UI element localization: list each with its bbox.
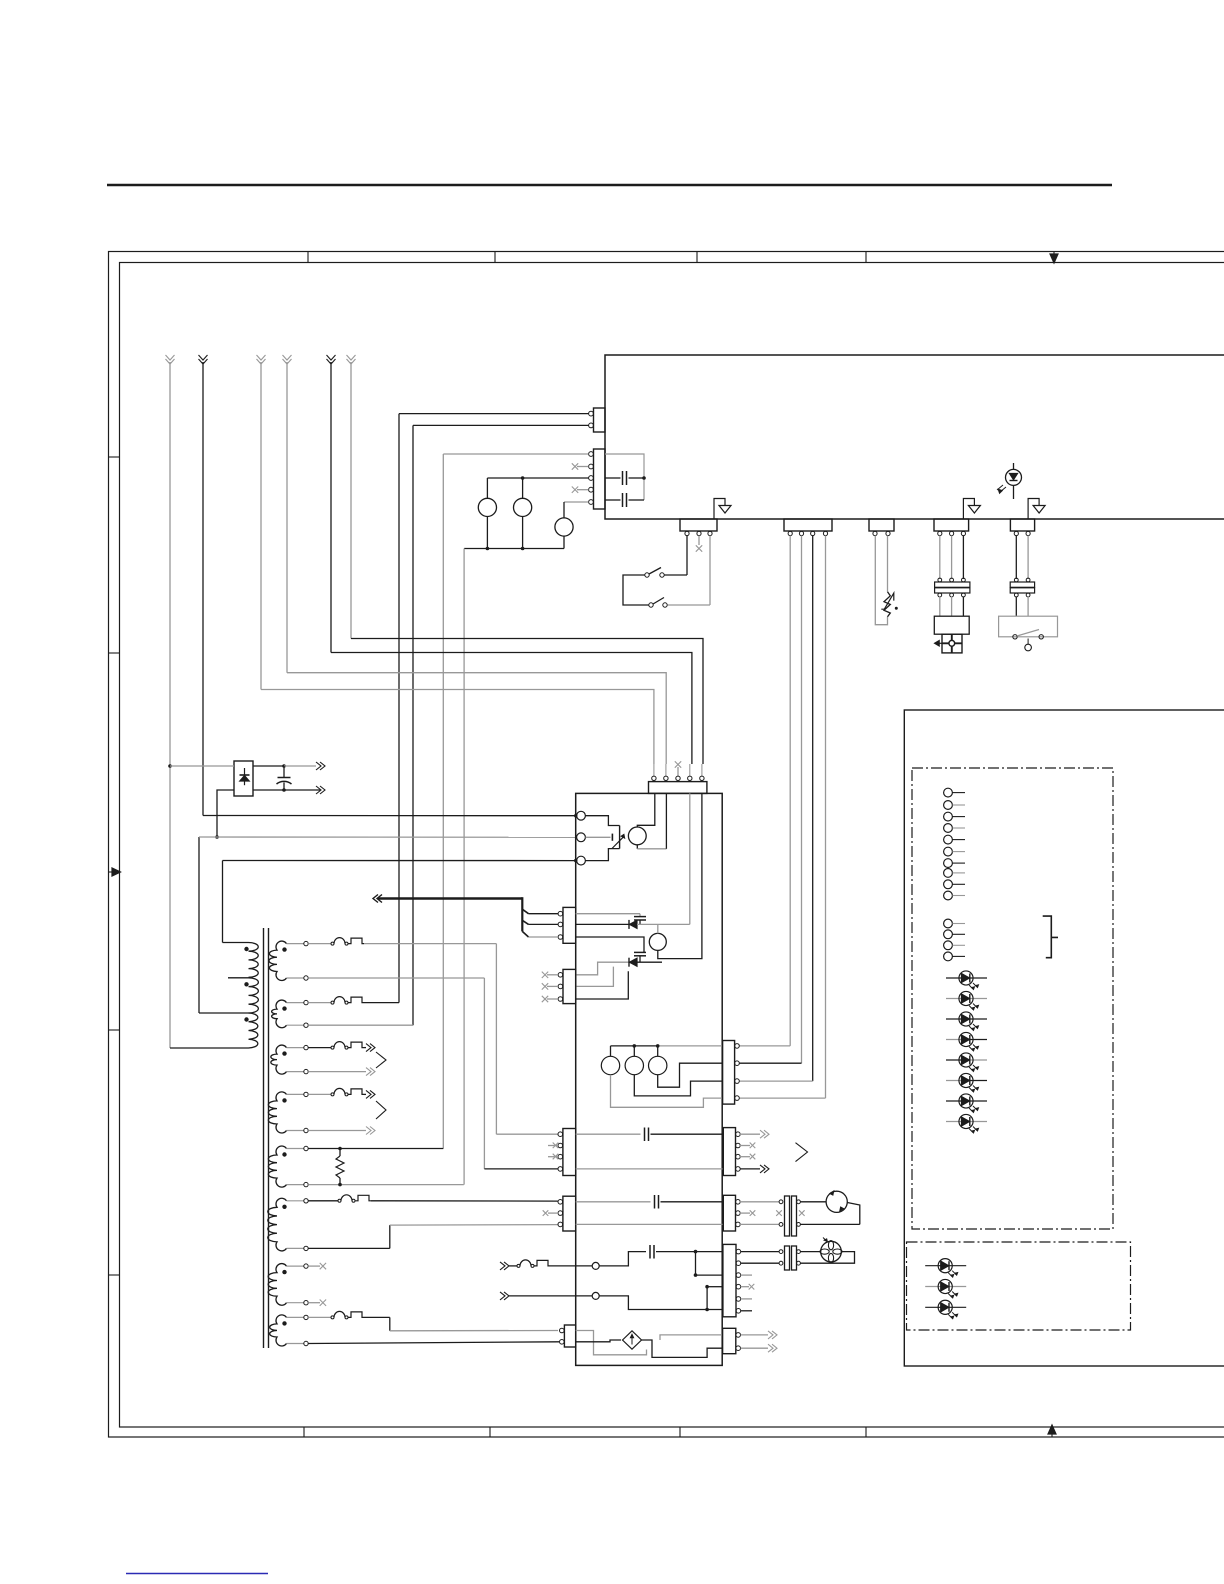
wire main board pin line y860 [223,860,577,862]
LED board dash-dot box [907,1242,1131,1330]
hyperlink underline [126,1573,268,1575]
connector CN-E1 right [723,1041,735,1105]
wire W4 to PSU pin2 [287,673,666,764]
LED D5 [946,1039,966,1041]
opto triac TR1 [586,816,620,826]
wire AC input 2 [217,790,234,837]
ground GND1 [714,499,725,520]
capacitor C5 [576,937,644,952]
nc stub CN-G pin1 [547,974,558,976]
nc stub CN-K pin3 [740,1156,750,1158]
wire W6 off-page feed [347,355,356,364]
nc stub CN-G pin3 [547,998,558,1000]
wire W2 off-page feed [199,355,208,364]
off-page arrow CN-Q pin1 [741,1334,768,1336]
wire D pin3 [576,971,629,999]
connector CN-G left [563,969,576,1003]
LED D11 [925,1286,945,1288]
wire S3 bottom [308,1071,366,1073]
connector CN-B on main board [594,449,606,509]
nc stub CN-H pin5 [741,1298,752,1300]
power supply board block [576,793,723,1365]
wire CN-D pin2 to CN-E1 [801,536,803,1064]
relay coil RL3 [555,518,573,536]
wire primary junction P2-P3 [199,1012,249,1014]
inline connector J1-J2 [938,578,942,582]
wire in2 [500,1292,509,1300]
wire W6 to PSU pin5 [351,639,703,765]
nc stub CN-C pin2 [698,536,700,546]
wire D pin2 [576,967,614,987]
wires CN-E harness [939,536,941,580]
off-page arrow S3 bottom [366,1068,375,1076]
bus entry harness from main board [378,897,522,900]
T1 secondary S1 [269,941,286,980]
inner border frame [120,263,1224,1428]
T1 secondary S4 [268,1092,286,1133]
off-page arrow S3 top [366,1044,375,1052]
bus branch 2 [522,920,528,924]
T1 primary tap stub [228,977,249,979]
terminal T1b [592,1262,599,1269]
connector CN-K right [723,1128,735,1176]
wire W1 off-page feed [166,355,175,364]
terminal T2b [592,1292,599,1299]
interlock switch SW2 [649,603,653,607]
cover interlock switch SW3 [1013,635,1017,639]
wire CN-A pin2 to T1 winding S2 bottom [413,424,589,426]
diode D3 [576,962,629,975]
wire row y1224 [576,1223,723,1225]
off-page arrow DC out 2 [316,786,325,794]
wire W5 off-page feed [327,355,336,364]
relay coil RL1 [478,498,496,516]
wire W4 off-page feed [283,355,292,364]
wire S5 top to CN-B pin1 [308,1148,443,1150]
operation panel block [904,710,1224,1366]
nc stub CN-H pin4 [741,1286,749,1288]
T1 primary winding P1 [249,943,259,978]
wire W3 to PSU pin1 [261,690,654,765]
inline connector J3-J4 [1014,578,1018,582]
relay RY2 [649,933,666,950]
nc stub CN-M pin2 [740,1212,750,1214]
border zone tick left 2 [109,652,120,654]
nc stub CN-G pin2 [547,985,558,987]
LED D2 [946,977,966,979]
capacitor C7 [576,1201,651,1203]
border zone tick top 3 [696,252,698,263]
sensor unit PS1 [934,616,969,634]
ground GND3 [1028,499,1039,520]
fuse F6 [308,1316,331,1318]
T1 primary winding P3 [249,1013,258,1048]
relay common return bus [486,517,488,549]
connector CN-Q right [723,1328,736,1353]
interlock switch SW1 [686,536,688,576]
fuse F7 row and cap C8 [500,1262,509,1270]
relay coil RL2 [514,498,532,516]
nc stub CN-H pin6 [741,1310,752,1312]
off-page bracket S3 [376,1052,386,1068]
border zone tick bottom 1 [303,1427,305,1437]
wire CN-D pin3 to CN-E1 [812,536,814,1082]
border zone tick left 1 [109,456,120,458]
off-page bracket S4 [376,1101,386,1119]
nc stub S7 top [308,1265,320,1267]
wire W5 to PSU pin4 [331,653,692,765]
T1 secondary S6 [268,1198,287,1251]
registration sensor mark [942,634,962,653]
connector CN-TH main board bottom [869,519,894,531]
diode D2 [576,923,629,925]
wire S6 bottom to CN-L pin3 [308,1247,390,1249]
wire main board pin line y816 [203,815,577,817]
T1 secondary S3 [271,1045,287,1074]
T1 secondary S2 [272,1000,287,1028]
connector CN-H right [723,1244,736,1316]
connector CN-M right [723,1195,735,1231]
capacitor C2 inside main board [605,499,621,501]
zener bridge Z1 [576,1331,647,1355]
connector CN-C main board bottom [680,519,717,531]
connector CN-F main board bottom [1010,519,1034,531]
wire to thermistor TH1 [875,536,887,625]
solenoid bank SL1-SL3 [611,1045,659,1047]
wire CN-D pin1 to CN-E1 [789,536,791,1046]
LED D10 [925,1265,945,1267]
terminal E2 [577,833,586,842]
wire CN-B pin3 to relay coils RL1 RL2 [487,477,588,479]
connector CN-L left [563,1196,576,1231]
LED D6 [946,1059,966,1061]
revision arrow bottom [1048,1425,1056,1434]
nc stub CN-B pin4 [577,489,589,491]
inline connector J6 [741,1251,779,1253]
capacitor C4 [576,913,640,915]
T1 secondary S8 [270,1315,287,1346]
wire AC input 1 [168,764,172,768]
fuse F4 [308,1093,331,1095]
main board block [605,355,1224,519]
connector CN-A on main board [594,408,606,432]
border zone tick top 4 [865,252,867,263]
border zone tick bottom 3 [679,1427,681,1437]
common bracket [1043,916,1058,958]
page header rule [107,184,1112,187]
cover unit box [999,616,1058,637]
border zone tick top 1 [307,252,309,263]
wire S8 top to CN-P pin1 [364,1316,390,1318]
psu interior verticals [695,1252,697,1276]
key switch column 1 [944,788,953,797]
nc stub CN-B pin2 [577,466,589,468]
bus branch 3 [522,931,528,937]
LED D4 [946,1018,966,1020]
border zone tick bottom 2 [489,1427,491,1437]
off-page arrow CN-K pin1 [740,1133,760,1135]
off-page bracket K [796,1143,808,1162]
LED D9 [946,1121,966,1123]
T1 secondary S5 [268,1146,286,1187]
capacitor C3 electrolytic [253,765,284,767]
connector CN-E main board bottom [934,519,969,531]
LED D1 power indicator [1013,463,1015,470]
connector CN-D main board bottom [784,519,832,531]
fuse F5 [308,1200,338,1202]
terminal E3 [577,856,586,865]
wire main board pin line y837 [199,836,577,838]
outer border frame [109,252,1224,1438]
connector CN-F left [563,907,576,943]
wire CN-A pin1 to T1 winding S2 top [399,413,589,415]
border zone tick left 3 [109,1029,120,1031]
off-page arrow DC out 1 [316,762,325,770]
wire S2 bottom [308,1024,413,1026]
LED D12 [925,1306,945,1308]
thermistor TH1 [884,592,890,617]
nc stub J5 mid [776,1210,782,1216]
off-page arrow S4 top [366,1090,375,1098]
nc stub CN-L pin2 [548,1212,558,1214]
fuse F2 [308,1002,331,1004]
connector CN-PSU-TOP [649,782,707,794]
border zone tick bottom 4 [865,1427,867,1437]
wire CN-D pin4 to CN-E1 [825,536,827,1099]
relay RY1 [628,827,646,845]
LED D8 [946,1100,966,1102]
off-page arrow S4 bottom [366,1127,375,1135]
wire S4 bottom [308,1130,366,1132]
nc stub CN-K pin2 [740,1145,750,1147]
wire CN-B pin1 to T1 winding S5 top [443,453,588,455]
LED D7 [946,1080,966,1082]
T1 secondary S7 [268,1264,286,1306]
LED D3 [946,998,966,1000]
bridge rectifier DB1 [234,761,253,796]
nc stub CN-J pin3 [548,1156,558,1158]
capacitor C6 [576,1133,641,1135]
motor M1 [801,1201,827,1203]
key switch column 2 [944,919,953,928]
border zone tick top 2 [494,252,496,263]
wire S1 top to CN-J pin1 [495,944,497,1135]
fan FM1 [801,1251,821,1253]
nc stub CN-H pin3 [741,1274,752,1276]
wire S5 bottom [308,1184,464,1186]
off-page arrow CN-K pin4 [740,1168,760,1170]
revision arrow top [1050,254,1058,263]
nc stub PSU pin3 [677,767,679,776]
wire row y1169 [576,1168,723,1170]
wire S8 bottom to CN-P pin2 [308,1342,559,1344]
revision arrow left [112,868,121,876]
inline connector J5 [740,1201,779,1203]
bus branch 1 [522,909,528,914]
solenoid return wires [658,1063,723,1087]
T1 primary winding P2 [249,978,259,1013]
off-page arrow CN-Q pin2 [741,1347,768,1349]
connector CN-P left [564,1325,575,1347]
key board dash-dot box [912,768,1113,1229]
resistor R1 [336,1156,344,1178]
wires CN-F harness [1015,536,1017,580]
wire primary bottom lead [170,1047,249,1049]
transformer T1 core [263,928,265,1348]
connector CN-J left [563,1129,576,1176]
ground GND2 [963,499,974,520]
wire S1 bottom to CN-J pin4 [308,977,484,979]
wire W3 off-page feed [257,355,266,364]
terminal E1 [577,811,586,820]
fuse F3 [308,1047,331,1049]
nc stub CN-J pin2 [548,1145,558,1147]
border zone tick left 4 [109,1274,120,1276]
capacitor C1 inside main board [605,454,644,500]
wire CN-B pin5 to relay coil RL3 [564,501,589,503]
nc stub S7 bottom [308,1302,320,1304]
fuse F1 [308,943,331,945]
